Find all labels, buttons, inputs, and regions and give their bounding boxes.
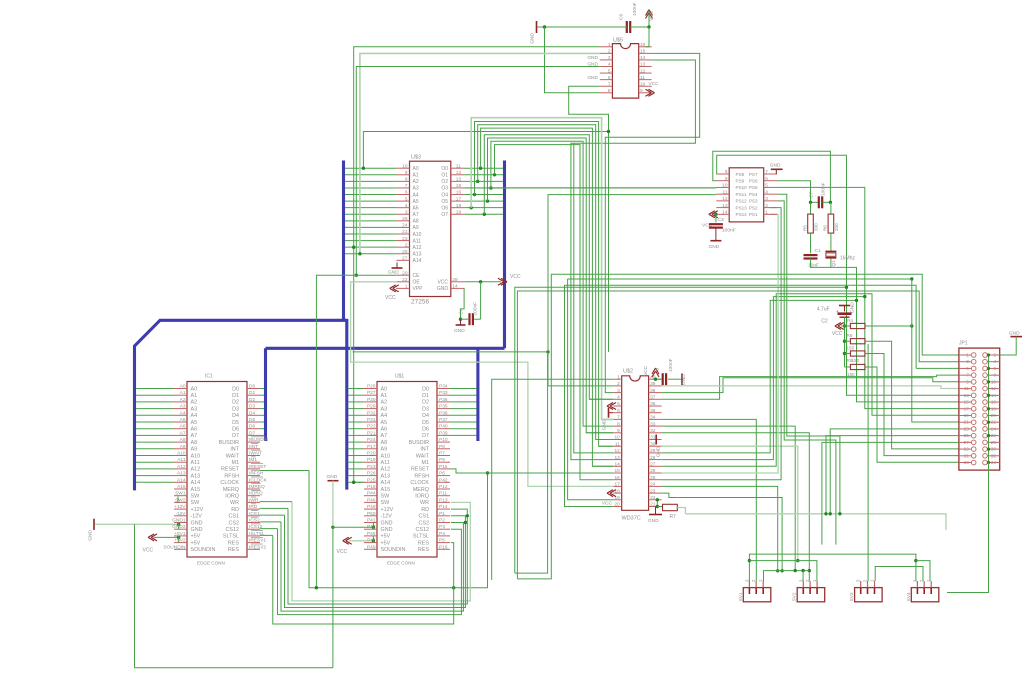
svg-text:A13: A13 <box>191 473 201 479</box>
svg-text:5: 5 <box>405 196 408 202</box>
svg-text:A0: A0 <box>180 384 186 390</box>
svg-text:P3: P3 <box>439 524 445 530</box>
svg-text:13: 13 <box>614 455 620 461</box>
svg-text:31: 31 <box>650 435 656 441</box>
wire U$2 pin7 feeder (pale) <box>602 418 614 420</box>
svg-text:RES: RES <box>228 540 239 546</box>
svg-text:RESET: RESET <box>411 467 430 473</box>
wire IC1 CS12 wire <box>260 528 278 530</box>
svg-text:28: 28 <box>650 455 656 461</box>
svg-text:GND: GND <box>381 527 393 533</box>
svg-text:PS4: PS4 <box>749 192 758 197</box>
svg-text:D0: D0 <box>249 384 255 390</box>
svg-text:MERQ: MERQ <box>413 487 429 493</box>
svg-text:ICS2: ICS2 <box>249 518 260 524</box>
svg-text:11: 11 <box>964 386 969 391</box>
bus: horizontal data bus y=348.3 <box>266 347 505 350</box>
wire U$2 pin29 joins crystal feeder <box>662 300 857 453</box>
svg-text:P36: P36 <box>439 397 448 403</box>
wire IC1 address pins to bus <box>136 389 174 483</box>
svg-text:GND: GND <box>656 446 662 457</box>
svg-text:17: 17 <box>456 196 462 202</box>
ground GND at JP1 pin2 <box>1009 330 1022 336</box>
svg-text:18: 18 <box>614 488 620 494</box>
svg-text:IWAIT: IWAIT <box>249 451 262 457</box>
svg-text:SW: SW <box>191 500 201 506</box>
svg-text:13: 13 <box>722 203 728 209</box>
wire GND-C6-VCC net <box>537 10 651 29</box>
wire U$5 pin2 net down to U$3 A13 (pale) <box>358 53 600 255</box>
svg-text:2: 2 <box>765 203 768 209</box>
svg-text:RFSH: RFSH <box>224 473 239 479</box>
svg-text:33: 33 <box>964 460 970 465</box>
svg-text:SOUNDIN: SOUNDIN <box>163 544 186 550</box>
wire U$2 pin25 feeder from DIP14 pin2 <box>662 208 782 480</box>
wire U$3 address pins to bus <box>345 168 396 254</box>
svg-text:27: 27 <box>964 440 970 445</box>
wire U$3 pin14 GND to C4 <box>459 288 465 321</box>
connector SV1 <box>738 579 771 602</box>
svg-text:GND: GND <box>437 286 449 292</box>
wire U$1 A14 junction <box>352 481 355 484</box>
svg-text:P45: P45 <box>367 531 376 537</box>
power VCC arrow at U$3 pin1 VPP <box>385 285 399 301</box>
svg-text:IRESET: IRESET <box>249 464 266 470</box>
svg-text:P34: P34 <box>439 384 448 390</box>
svg-text:1: 1 <box>765 210 768 216</box>
crystal Q1 16Mhz <box>825 233 855 266</box>
svg-text:25: 25 <box>964 433 970 438</box>
power VCC arrow at U$3 pin28 <box>498 274 521 285</box>
svg-text:O3: O3 <box>441 186 448 192</box>
svg-text:P16: P16 <box>439 544 448 550</box>
svg-text:U$3: U$3 <box>411 155 421 161</box>
svg-text:IRD: IRD <box>249 504 258 510</box>
svg-text:A1: A1 <box>180 390 186 396</box>
svg-text:P10: P10 <box>439 437 448 443</box>
svg-text:P28: P28 <box>367 384 376 390</box>
svg-text:D3: D3 <box>232 406 239 412</box>
wire U$2 pin21 pin22 junction to R7 <box>656 498 663 508</box>
svg-text:SV4: SV4 <box>906 592 912 601</box>
svg-text:10: 10 <box>991 379 997 384</box>
wire U$2 pin37 to JP1 pin7 <box>662 375 959 399</box>
svg-text:D6: D6 <box>232 427 239 433</box>
wire IC1 GND net <box>95 497 333 668</box>
resistor R4 150 <box>845 318 866 329</box>
wire U$1 data pins to bus <box>450 389 477 436</box>
svg-text:11: 11 <box>640 75 645 81</box>
svg-text:GND: GND <box>1009 330 1020 336</box>
svg-text:A8: A8 <box>381 440 388 446</box>
svg-text:33: 33 <box>650 421 656 427</box>
ground GND at U$1 <box>327 474 376 668</box>
wire U$2 pin4 feeder <box>589 398 613 400</box>
svg-text:O2: O2 <box>441 179 448 185</box>
capacitor C6 100nF <box>619 2 639 33</box>
svg-text:4.7uF: 4.7uF <box>817 307 830 313</box>
wire VCC rail through resistors <box>841 317 846 367</box>
svg-text:A3: A3 <box>180 404 186 410</box>
svg-text:PS3: PS3 <box>749 199 758 204</box>
wire U$3 O0..O7 data bus staircase to U$2 <box>464 118 613 480</box>
svg-text:16: 16 <box>991 400 997 405</box>
svg-text:5: 5 <box>966 366 969 371</box>
wire IC1 CS2 wire <box>260 521 281 523</box>
svg-text:10: 10 <box>722 183 728 189</box>
svg-text:C4: C4 <box>458 308 464 314</box>
wire DIP14 pin5 to bundle <box>777 187 959 408</box>
svg-text:9: 9 <box>725 176 728 182</box>
svg-text:BUSDIR: BUSDIR <box>409 440 429 446</box>
svg-text:15: 15 <box>614 468 620 474</box>
svg-text:PS12: PS12 <box>736 199 748 204</box>
svg-text:IIORQ: IIORQ <box>249 491 263 497</box>
svg-text:+5V1: +5V1 <box>174 531 186 537</box>
svg-text:A2: A2 <box>413 179 419 185</box>
capacitor C4 100nF <box>458 302 480 325</box>
capacitor C3 100nF <box>709 214 736 233</box>
svg-text:P31: P31 <box>367 417 376 423</box>
wire crystal gnd join to bundle <box>811 259 959 402</box>
wire IC1 CS1 wire <box>260 514 285 516</box>
svg-text:A12: A12 <box>177 464 186 470</box>
svg-text:RESET: RESET <box>221 467 240 473</box>
svg-text:A8: A8 <box>191 440 198 446</box>
svg-text:P35: P35 <box>439 404 448 410</box>
svg-text:A10: A10 <box>191 453 201 459</box>
svg-text:19: 19 <box>964 413 970 418</box>
svg-text:20: 20 <box>402 270 408 276</box>
svg-text:-12V: -12V <box>191 514 203 520</box>
svg-text:A7: A7 <box>413 212 419 218</box>
svg-text:34: 34 <box>991 460 997 465</box>
svg-text:VCC: VCC <box>385 295 396 301</box>
wire DIP14 pin8 loop to JP1 bundle <box>716 155 959 395</box>
svg-text:D2: D2 <box>422 400 429 406</box>
svg-text:22: 22 <box>402 277 408 283</box>
svg-text:CS12: CS12 <box>226 527 240 533</box>
capacitor C2 4.7uF polarized <box>817 307 852 325</box>
svg-text:1: 1 <box>405 284 408 290</box>
wire U$5 pin16 to VCC net <box>645 27 649 47</box>
svg-text:2: 2 <box>993 353 996 358</box>
svg-text:+12V: +12V <box>381 507 394 513</box>
svg-text:MERQ: MERQ <box>223 487 239 493</box>
svg-text:P2: P2 <box>439 518 445 524</box>
svg-text:D5: D5 <box>422 420 429 426</box>
svg-text:A5: A5 <box>180 417 186 423</box>
svg-text:8: 8 <box>725 169 728 175</box>
svg-text:12: 12 <box>614 448 620 454</box>
svg-text:U$5: U$5 <box>613 38 623 44</box>
svg-text:26: 26 <box>991 433 997 438</box>
svg-text:PS13: PS13 <box>736 205 748 210</box>
svg-text:A13: A13 <box>381 473 391 479</box>
svg-text:P9: P9 <box>439 457 445 463</box>
svg-text:D2: D2 <box>232 400 239 406</box>
wire U$5 pin4 net down to U$3 CE wire <box>355 67 600 277</box>
svg-text:D4: D4 <box>422 413 429 419</box>
svg-text:IMREQ: IMREQ <box>249 484 265 490</box>
svg-text:IRFSH: IRFSH <box>249 471 264 477</box>
svg-text:P20: P20 <box>367 451 376 457</box>
svg-text:C6: C6 <box>619 14 625 20</box>
svg-text:SW: SW <box>381 494 391 500</box>
wire pale rail y=513.8 <box>685 514 946 530</box>
svg-text:7: 7 <box>405 183 408 189</box>
svg-text:5: 5 <box>608 68 611 74</box>
svg-text:13: 13 <box>640 62 646 68</box>
svg-text:P30: P30 <box>367 397 376 403</box>
wire R8 to JP1 pin29 <box>865 341 959 449</box>
svg-text:GND: GND <box>381 520 393 526</box>
svg-text:24: 24 <box>402 223 408 229</box>
svg-text:16: 16 <box>640 42 646 48</box>
svg-text:Q1: Q1 <box>831 260 836 267</box>
svg-text:WR: WR <box>420 500 429 506</box>
svg-text:RD: RD <box>231 507 239 513</box>
svg-text:WR: WR <box>230 500 239 506</box>
wire bottom run SLTSL net <box>273 535 454 624</box>
svg-text:EDGE CONN: EDGE CONN <box>387 561 415 566</box>
svg-text:A0: A0 <box>413 166 419 172</box>
wire long risers to top-right runs <box>515 274 959 579</box>
svg-text:3: 3 <box>608 55 611 61</box>
svg-text:6: 6 <box>608 75 611 81</box>
svg-text:330: 330 <box>814 223 819 231</box>
svg-text:M1: M1 <box>232 460 240 466</box>
wire JP1 pin23 pin25 down to pale rail <box>824 429 959 516</box>
svg-text:GND: GND <box>770 163 781 169</box>
svg-text:R5: R5 <box>802 225 807 231</box>
svg-text:VCC: VCC <box>649 81 660 87</box>
svg-text:26: 26 <box>402 249 408 255</box>
svg-text:VCC: VCC <box>510 274 521 280</box>
wire bottom run CS2 net <box>281 522 463 611</box>
svg-text:A15: A15 <box>177 484 186 490</box>
svg-text:4: 4 <box>608 62 611 68</box>
svg-text:37: 37 <box>650 395 656 401</box>
svg-text:D3: D3 <box>422 406 429 412</box>
svg-text:27: 27 <box>650 462 656 468</box>
svg-text:PS14: PS14 <box>736 212 748 217</box>
svg-text:C7: C7 <box>809 192 815 198</box>
svg-text:PS5: PS5 <box>749 185 758 190</box>
svg-text:A14: A14 <box>177 477 186 483</box>
svg-text:IRESV2: IRESV2 <box>249 544 266 550</box>
svg-text:INT: INT <box>230 447 239 453</box>
svg-text:12: 12 <box>456 170 462 176</box>
svg-text:P33: P33 <box>439 390 448 396</box>
svg-text:A11: A11 <box>191 460 200 466</box>
svg-text:PS9: PS9 <box>736 179 745 184</box>
svg-text:A12: A12 <box>381 467 391 473</box>
svg-text:A14: A14 <box>381 480 391 486</box>
svg-text:GND: GND <box>454 328 465 334</box>
wire bottom run RD net <box>288 508 469 604</box>
capacitor C1 10nF <box>804 233 821 268</box>
svg-text:3: 3 <box>405 209 408 215</box>
ground GND at DIP14 pin7 <box>770 163 783 175</box>
bus: address bus left of U$3 down to IC1 <box>342 161 345 321</box>
svg-text:C1: C1 <box>815 248 821 254</box>
svg-text:IWR: IWR <box>249 497 259 503</box>
wire bottom run WR net <box>292 502 470 601</box>
svg-text:21: 21 <box>650 502 656 508</box>
wire U$5 pin8 to GND net <box>545 27 600 93</box>
svg-text:A8: A8 <box>413 219 419 225</box>
svg-text:CLOCK: CLOCK <box>220 480 239 486</box>
svg-text:P50: P50 <box>367 511 376 517</box>
wire JP1 even pins GND chain <box>947 337 1016 593</box>
power VCC arrow at U$2 pin40 <box>643 365 659 377</box>
svg-text:14: 14 <box>722 210 728 216</box>
wire U$2 pin1 net <box>492 379 614 580</box>
svg-text:IORQ: IORQ <box>225 494 239 500</box>
svg-text:P32: P32 <box>367 410 376 416</box>
wire U$2 pin26 feeder from DIP14 pin1 (pale) <box>662 214 779 473</box>
svg-text:CS1: CS1 <box>229 514 240 520</box>
svg-text:VCC: VCC <box>602 501 613 507</box>
connector SV2 <box>792 579 825 602</box>
wire IC1 WR wire <box>260 501 292 503</box>
svg-text:A6: A6 <box>191 427 198 433</box>
ground GND below C4 <box>454 319 466 334</box>
svg-text:14: 14 <box>452 284 458 290</box>
svg-text:P21: P21 <box>367 430 376 436</box>
svg-text:VCC: VCC <box>437 280 448 286</box>
svg-text:2: 2 <box>405 242 408 248</box>
svg-text:4: 4 <box>993 359 996 364</box>
svg-text:20: 20 <box>614 502 620 508</box>
svg-text:EDGE CONN: EDGE CONN <box>197 561 225 566</box>
wire IC1 RD wire <box>260 507 288 509</box>
resistor R8 150 <box>845 333 866 351</box>
svg-text:GND: GND <box>88 529 94 540</box>
svg-text:3: 3 <box>966 359 969 364</box>
svg-text:IM1: IM1 <box>249 457 257 463</box>
wire bottom run RFSH net <box>309 471 489 590</box>
power VCC arrow at U$2 pin18 <box>607 490 616 497</box>
svg-text:SW2: SW2 <box>175 497 186 503</box>
svg-text:8: 8 <box>405 177 408 183</box>
svg-text:RES: RES <box>418 540 429 546</box>
wire R7 to pale rail <box>677 508 685 514</box>
wire U$3 pin28 VCC with branch to C4 <box>464 280 501 319</box>
svg-text:A13: A13 <box>177 471 186 477</box>
wire DIP14 pin6 to R5 C7 junction <box>777 181 810 203</box>
svg-text:6: 6 <box>617 408 620 414</box>
resistor R6 330 <box>823 202 839 233</box>
svg-text:17: 17 <box>614 482 620 488</box>
svg-text:O0: O0 <box>441 166 448 172</box>
svg-text:A5: A5 <box>413 199 419 205</box>
svg-text:SLTSL: SLTSL <box>413 534 429 540</box>
svg-text:GND: GND <box>648 518 659 524</box>
svg-text:15: 15 <box>964 400 970 405</box>
svg-text:A1: A1 <box>191 393 198 399</box>
svg-text:11: 11 <box>456 163 461 169</box>
wire SV2 net b <box>764 569 810 581</box>
svg-text:ISLTSL: ISLTSL <box>249 531 265 537</box>
svg-text:23: 23 <box>650 488 656 494</box>
svg-text:D7: D7 <box>422 433 429 439</box>
svg-text:GND: GND <box>587 75 598 81</box>
svg-text:P40: P40 <box>439 424 448 430</box>
svg-text:32: 32 <box>991 453 997 458</box>
wire U$5 pin1 net down to U$3 A12 and U$1 A14 <box>352 47 600 484</box>
wire U$2 pin11 feeder <box>599 445 614 447</box>
svg-text:O5: O5 <box>441 199 448 205</box>
svg-text:22: 22 <box>991 420 997 425</box>
power VCC arrow at IC1 +5V <box>143 534 181 554</box>
svg-text:27256: 27256 <box>411 299 429 306</box>
svg-text:IINT: IINT <box>249 444 258 450</box>
svg-text:P27: P27 <box>367 390 376 396</box>
wire feeder to U$2 pin19 and R4 bundle <box>568 277 914 500</box>
wire SV3 net g <box>875 567 923 582</box>
svg-text:GND: GND <box>602 419 608 430</box>
svg-text:100nF: 100nF <box>632 2 638 16</box>
svg-text:C5: C5 <box>655 368 661 374</box>
svg-text:PS2: PS2 <box>749 205 758 210</box>
svg-text:RES: RES <box>418 547 429 553</box>
svg-text:22: 22 <box>650 495 656 501</box>
resistor R9 150 <box>845 351 866 363</box>
svg-text:P4: P4 <box>439 531 445 537</box>
svg-text:R7: R7 <box>670 514 677 520</box>
bus: data bus right of U$3 <box>503 161 506 349</box>
svg-text:WAIT: WAIT <box>416 453 430 459</box>
svg-text:15: 15 <box>640 49 646 55</box>
svg-text:P48: P48 <box>367 504 376 510</box>
svg-text:P42: P42 <box>439 477 448 483</box>
svg-text:30: 30 <box>650 441 656 447</box>
wire DIP14 pin9 loop to crystal R6 <box>713 151 831 202</box>
svg-text:GND: GND <box>327 474 338 480</box>
svg-text:16Mhz: 16Mhz <box>840 256 856 262</box>
svg-text:D3: D3 <box>249 404 255 410</box>
svg-text:SV2: SV2 <box>792 592 798 601</box>
resistor R10 150 <box>845 364 866 377</box>
svg-text:17: 17 <box>964 406 970 411</box>
svg-text:O1: O1 <box>441 173 448 179</box>
svg-text:12: 12 <box>722 196 728 202</box>
svg-text:3: 3 <box>765 196 768 202</box>
svg-text:R8: R8 <box>847 333 853 338</box>
svg-text:-12V: -12V <box>175 511 186 517</box>
svg-text:25: 25 <box>650 475 656 481</box>
svg-text:A2: A2 <box>180 397 186 403</box>
svg-text:+12V: +12V <box>191 507 204 513</box>
svg-text:A6: A6 <box>381 427 388 433</box>
svg-text:D7: D7 <box>249 430 255 436</box>
svg-text:11: 11 <box>615 441 620 447</box>
wire U$2 pin28 joins DIP14 pin5 feeder <box>662 297 865 460</box>
svg-text:1: 1 <box>608 42 611 48</box>
svg-text:P15: P15 <box>439 464 448 470</box>
svg-text:INT: INT <box>420 447 429 453</box>
svg-text:29: 29 <box>964 447 970 452</box>
IC DIP-14 shift register (PS8-PS14/PS7-PS1) <box>716 168 777 222</box>
svg-text:PS7: PS7 <box>749 172 758 177</box>
svg-text:A4: A4 <box>191 413 198 419</box>
svg-text:P24: P24 <box>367 437 376 443</box>
svg-text:CLOCK: CLOCK <box>410 480 429 486</box>
wire U$5 pin14 to U$2 pin13 <box>571 60 696 460</box>
svg-text:14: 14 <box>640 55 646 61</box>
